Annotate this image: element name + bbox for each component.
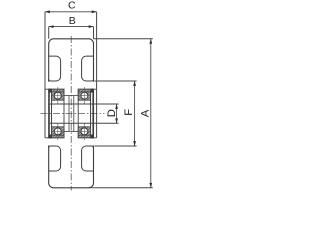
washer caps	[49, 89, 94, 139]
svg-text:F: F	[123, 109, 135, 116]
C extension lines	[44, 12, 46, 138]
race boundary lines	[52, 92, 91, 135]
wheel outline	[49, 39, 94, 188]
A extension lines	[94, 38, 153, 40]
balls	[54, 92, 88, 135]
bearing right outer frame	[78, 89, 90, 138]
svg-text:D: D	[106, 109, 118, 117]
dimension B	[49, 26, 94, 28]
cutout bottom-left	[49, 146, 61, 171]
washer left	[49, 89, 51, 138]
bearing hatched races	[52, 89, 91, 138]
bearing left outer frame	[52, 89, 64, 138]
vertical centerline	[70, 36, 72, 191]
dimension D	[116, 104, 118, 123]
B extension lines	[48, 27, 50, 39]
edge gap patches	[48, 82, 94, 146]
svg-text:B: B	[69, 15, 76, 27]
bore lines / D extension	[50, 104, 119, 123]
F extension lines	[95, 80, 137, 82]
hub boss edges	[45, 89, 97, 138]
svg-text:C: C	[68, 0, 76, 12]
washer right	[91, 89, 93, 138]
cutout top-right	[82, 56, 94, 81]
cutout top-left	[49, 56, 61, 81]
dimension C	[45, 11, 97, 13]
dimension F	[134, 81, 136, 146]
cutout bottom-right	[82, 146, 94, 171]
svg-text:A: A	[139, 109, 151, 117]
spacer between bearings	[64, 96, 78, 132]
ball cross ticks	[52, 87, 91, 140]
horizontal centerline	[41, 113, 105, 115]
dimension A	[150, 39, 152, 188]
